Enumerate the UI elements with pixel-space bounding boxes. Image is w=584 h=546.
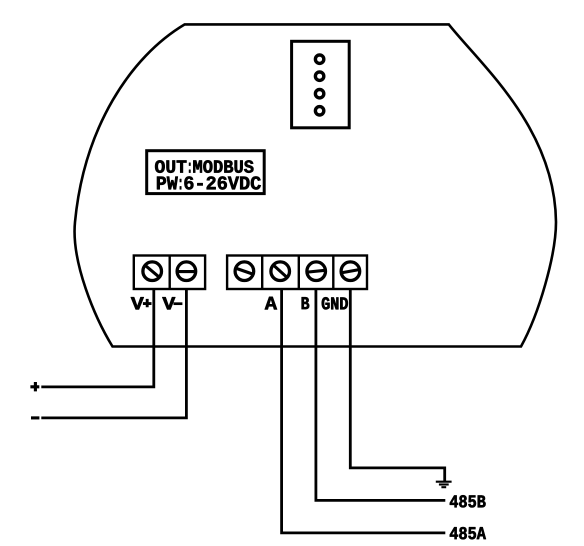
TB2 screw 2 (A) <box>271 262 290 281</box>
TB2 screw 1 <box>235 262 254 281</box>
wire B to 485B <box>316 289 445 500</box>
terminal block TB1 body <box>134 256 205 290</box>
TB2 divider 2 <box>298 256 300 290</box>
TB2 screw 3 slot <box>306 270 326 272</box>
TB1 divider <box>168 256 170 290</box>
ground symbol <box>436 482 452 488</box>
plus symbol <box>30 382 39 391</box>
TB2 divider 3 <box>332 256 334 290</box>
TB2 screw 4 slot <box>340 269 360 273</box>
TB1 screw V- slot <box>177 270 196 273</box>
label GND <box>322 297 348 309</box>
TB1 screw V- <box>177 262 196 281</box>
connector pin 2 <box>315 72 323 80</box>
wire V+ to plus terminal <box>41 289 154 387</box>
text PW:6-26VDC <box>157 176 261 189</box>
minus symbol <box>31 416 39 419</box>
label 485B <box>450 495 486 507</box>
wire V- to minus terminal <box>41 289 186 418</box>
TB2 screw 4 (GND) <box>341 262 360 281</box>
label V+ plus sign <box>143 299 152 307</box>
TB2 screw 1 slot <box>235 268 254 275</box>
TB1 screw V+ <box>143 262 162 281</box>
TB1 screw V+ slot <box>144 265 160 278</box>
TB2 divider 1 <box>261 256 263 290</box>
TB2 screw 3 (B) <box>307 262 326 281</box>
label box <box>147 151 265 194</box>
label V- minus sign <box>174 302 183 305</box>
label A <box>265 297 277 310</box>
label 485A <box>450 527 486 539</box>
connector pin 3 <box>315 90 323 98</box>
label V+ (V glyph) <box>131 297 144 309</box>
connector J1 <box>292 41 350 128</box>
label V- (V glyph) <box>162 297 175 309</box>
TB2 screw 2 slot <box>273 264 288 278</box>
connector pin 1 <box>315 55 323 63</box>
wire GND to earth <box>350 289 444 481</box>
terminal block TB2 body <box>227 256 367 290</box>
enclosure outline <box>75 24 556 346</box>
text OUT:MODBUS <box>155 160 253 172</box>
wire A to 485A <box>282 289 446 533</box>
connector pin 4 <box>315 107 323 115</box>
label B <box>302 297 310 309</box>
